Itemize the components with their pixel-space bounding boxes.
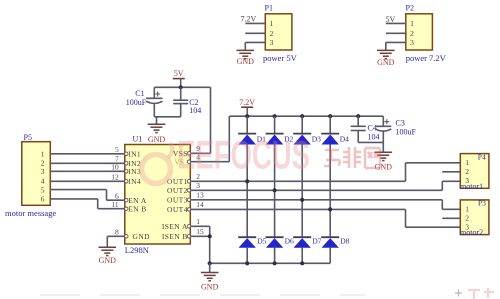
wire OUT4 row to motor2 pin3 — [190, 209, 460, 227]
U1 pin connection circles — [125, 152, 191, 238]
junction dot ISEN — [208, 234, 212, 238]
connector P1 power 5V — [265, 4, 292, 51]
connector P3 motor2 — [460, 199, 489, 238]
diode D1 — [238, 116, 266, 144]
wire P1 pin2 stub — [245, 32, 265, 34]
connector P5 motor message — [22, 133, 51, 205]
ground GND below C1 C2 — [148, 117, 166, 144]
U1 right pin names — [162, 149, 188, 241]
wire P5 pin1 to U1 IN1 — [50, 153, 125, 155]
svg-text:3: 3 — [410, 38, 414, 47]
svg-text:14: 14 — [196, 200, 204, 209]
wire diode column 1 bottom — [246, 248, 248, 264]
connector P4 motor1 — [460, 152, 489, 191]
svg-text:motor message: motor message — [5, 208, 56, 218]
svg-text:D6: D6 — [285, 237, 294, 246]
svg-text:3: 3 — [41, 167, 45, 176]
wire motor2 pin2 stub — [442, 217, 460, 219]
svg-text:1: 1 — [465, 205, 469, 214]
wire P5 pin6 to U1 EN B — [50, 199, 125, 209]
svg-text:motor1: motor1 — [460, 182, 483, 191]
junction dots on 7.2V bus — [245, 114, 360, 118]
wire OUT2 row to motor1 pin3 — [190, 181, 460, 190]
wire P5 pin4 to U1 IN4 — [50, 180, 125, 182]
watermark bottom faint row — [40, 294, 365, 296]
svg-text:GND: GND — [201, 283, 219, 292]
capacitor C2 104 — [173, 87, 201, 117]
wire P2 pin3 to ground — [386, 42, 406, 50]
ground GND bottom bus — [201, 263, 219, 291]
diode D2 — [266, 116, 294, 144]
wire P1 pin3 to ground — [245, 42, 265, 50]
wire P5 pin3 to U1 IN3 — [50, 170, 125, 172]
svg-text:1: 1 — [41, 150, 45, 159]
svg-text:6: 6 — [41, 195, 45, 204]
svg-text:15: 15 — [196, 227, 204, 236]
svg-text:C1: C1 — [135, 89, 144, 98]
diode D7 — [293, 237, 321, 248]
power port 7.2V — [239, 98, 255, 116]
op-chip U1 L298N body — [125, 135, 191, 256]
ground GND below P2 — [377, 50, 395, 67]
svg-text:L298N: L298N — [125, 245, 149, 255]
svg-text:EEFOCUS: EEFOCUS — [177, 134, 310, 178]
wire P1 pin1 stub with net 7.2V — [241, 15, 266, 24]
diode D5 — [238, 237, 266, 248]
svg-text:2: 2 — [465, 167, 469, 176]
svg-text:5: 5 — [115, 145, 119, 154]
wire diode column 3 middle — [301, 145, 303, 238]
watermark chinese characters — [324, 147, 380, 168]
svg-text:GND: GND — [99, 256, 117, 265]
U1 right pin numbers 9 4 2 3 13 14 1 15 — [196, 144, 204, 236]
wire C4 C3 bottom link — [358, 141, 383, 143]
ground GND below C3 C4 — [375, 142, 393, 171]
wire OUT1 row to motor1 pin1 — [190, 163, 460, 182]
svg-text:IN1: IN1 — [128, 149, 141, 158]
power port 5V — [173, 69, 185, 87]
svg-text:power 7.2V: power 7.2V — [406, 53, 447, 63]
svg-text:IN4: IN4 — [128, 177, 141, 186]
wire OUT3 row to motor2 pin1 — [190, 200, 460, 210]
svg-text:7.2V: 7.2V — [241, 15, 257, 24]
svg-text:11: 11 — [111, 200, 118, 209]
svg-text:D7: D7 — [312, 237, 321, 246]
diode D8 — [321, 237, 349, 248]
svg-text:P1: P1 — [265, 4, 273, 13]
svg-text:C4: C4 — [368, 124, 377, 133]
svg-text:motor2: motor2 — [460, 228, 483, 237]
svg-text:2: 2 — [410, 29, 414, 38]
capacitor C3 100uF electrolytic — [375, 116, 416, 142]
wire diode column 1 middle — [246, 145, 248, 238]
svg-text:2: 2 — [270, 29, 274, 38]
svg-text:12: 12 — [111, 173, 119, 182]
svg-text:EN B: EN B — [128, 204, 146, 213]
wire 5V node horizontal — [154, 86, 210, 88]
svg-text:GND: GND — [133, 232, 151, 241]
svg-text:OUT3: OUT3 — [167, 195, 188, 204]
wire diode column 3 bottom — [301, 248, 303, 264]
svg-text:ISEN A: ISEN A — [162, 222, 188, 231]
svg-text:100uF: 100uF — [126, 98, 147, 107]
junction dot OUT3 column3 — [300, 198, 304, 202]
svg-text:1: 1 — [465, 158, 469, 167]
svg-text:D4: D4 — [340, 135, 349, 144]
wire P2 pin2 stub — [386, 32, 406, 34]
junction dot OUT1 column1 — [245, 179, 249, 183]
wire C1 C2 bottom link — [154, 116, 180, 118]
svg-text:GND: GND — [237, 57, 255, 66]
svg-text:GND: GND — [148, 135, 166, 144]
svg-text:1: 1 — [410, 19, 414, 28]
wire P2 pin1 stub with net 5V — [386, 15, 406, 24]
capacitor C1 100uF electrolytic — [126, 87, 163, 117]
svg-text:P2: P2 — [406, 4, 414, 13]
wire U1 ISEN A pin 1 — [190, 226, 209, 263]
svg-text:7.2V: 7.2V — [239, 98, 255, 107]
svg-text:2: 2 — [41, 158, 45, 167]
svg-text:104: 104 — [368, 133, 380, 142]
diode D3 — [293, 116, 321, 144]
wire diode column 2 middle — [274, 145, 276, 238]
wire diode column 4 middle — [329, 145, 331, 238]
svg-text:P3: P3 — [478, 199, 486, 208]
wire diode column 2 bottom — [274, 248, 276, 264]
wire U1 ISEN B pin 15 — [190, 235, 209, 237]
wire bottom ground bus — [210, 262, 331, 264]
svg-text:3: 3 — [196, 181, 200, 190]
svg-text:5V: 5V — [174, 69, 184, 78]
wire diode column 4 bottom — [329, 248, 331, 264]
junction dot OUT2 column2 — [273, 188, 277, 192]
svg-text:ISEN B: ISEN B — [162, 232, 188, 241]
wire motor1 pin2 stub — [442, 171, 460, 173]
svg-text:8: 8 — [115, 228, 119, 237]
svg-text:100uF: 100uF — [396, 128, 417, 137]
watermark eefocus logo swoosh — [142, 143, 173, 184]
U1 left pin numbers 5 7 10 12 6 11 8 — [111, 145, 119, 237]
capacitor C4 104 — [351, 116, 380, 142]
svg-text:13: 13 — [196, 191, 204, 200]
wire P5 pin5 to U1 EN A — [50, 190, 125, 201]
ground GND at U1 pin 8 — [99, 247, 117, 265]
svg-text:1: 1 — [270, 19, 274, 28]
svg-text:U1: U1 — [133, 135, 143, 144]
svg-text:OUT2: OUT2 — [167, 186, 188, 195]
svg-text:104: 104 — [189, 106, 201, 115]
wire P5 pin2 to U1 IN2 — [50, 162, 125, 164]
watermark corner fragment — [468, 288, 494, 299]
svg-text:2: 2 — [465, 214, 469, 223]
svg-text:P4: P4 — [478, 152, 486, 161]
junction dot OUT4 column4 — [328, 207, 332, 211]
svg-text:3: 3 — [270, 38, 274, 47]
wire 5V node to U1 VSS pin 9 — [190, 87, 210, 153]
svg-text:4: 4 — [41, 176, 45, 185]
wire 7.2V bus — [229, 115, 383, 117]
svg-text:D5: D5 — [257, 237, 266, 246]
connector P2 power 7.2V — [406, 4, 433, 51]
svg-text:5V: 5V — [386, 15, 396, 24]
junction dots bottom bus — [208, 261, 305, 265]
svg-text:5: 5 — [41, 185, 45, 194]
wire U1 GND pin 8 to ground — [107, 236, 125, 247]
junction dot 5V node — [179, 85, 183, 89]
svg-text:GND: GND — [377, 58, 395, 67]
diode D6 — [266, 237, 294, 248]
svg-text:D3: D3 — [312, 135, 321, 144]
diode D4 — [321, 116, 349, 144]
svg-text:P5: P5 — [24, 133, 32, 142]
svg-text:power 5V: power 5V — [263, 53, 298, 63]
svg-text:1: 1 — [196, 217, 200, 226]
ground GND below P1 — [237, 50, 255, 66]
svg-text:OUT4: OUT4 — [167, 205, 188, 214]
U1 left pin names — [128, 149, 150, 241]
svg-text:D8: D8 — [340, 237, 349, 246]
wire U1 VS pin 4 to 7.2V bus — [190, 116, 229, 162]
svg-text:C3: C3 — [396, 118, 405, 127]
